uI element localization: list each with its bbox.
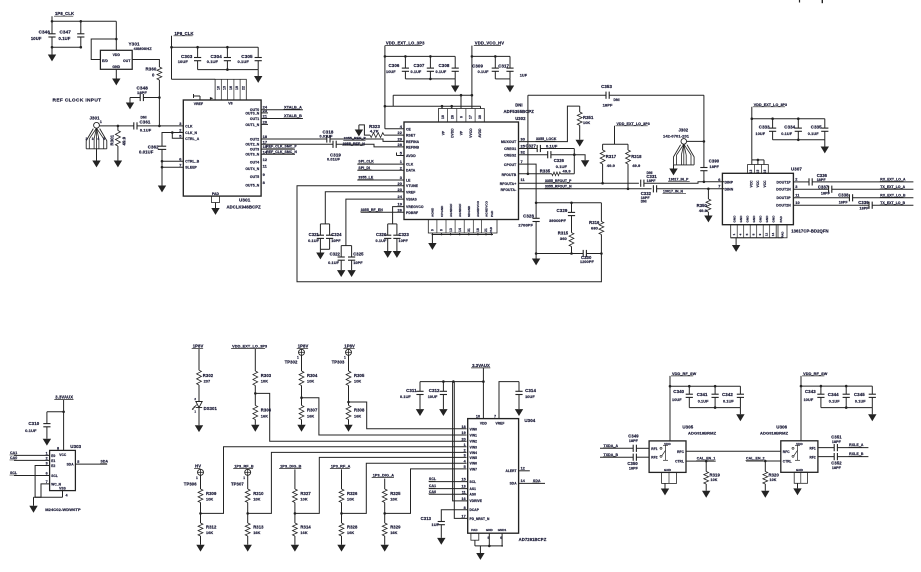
svg-text:VDD_EXT_LO_3P3: VDD_EXT_LO_3P3 — [232, 345, 267, 349]
pin U302 CREG2 (32) — [504, 150, 526, 158]
svg-text:CAL_EN_2: CAL_EN_2 — [746, 457, 765, 461]
svg-text:0.1UF: 0.1UF — [829, 400, 840, 404]
svg-text:U304: U304 — [524, 418, 535, 423]
svg-text:DOUT1N: DOUT1N — [776, 188, 791, 192]
svg-text:HV: HV — [195, 463, 201, 468]
ground U307 — [732, 238, 740, 252]
svg-text:RX_EXT_LO_A: RX_EXT_LO_A — [880, 178, 906, 182]
svg-text:MUXOUT: MUXOUT — [501, 140, 517, 144]
svg-text:RF2: RF2 — [809, 456, 815, 460]
capacitor C330 — [580, 250, 603, 264]
svg-text:R325: R325 — [390, 491, 401, 496]
pin U301 OUT5_N (8) — [245, 180, 265, 187]
svg-text:C313: C313 — [421, 516, 432, 521]
svg-text:SPI_DI: SPI_DI — [358, 166, 370, 170]
svg-text:2: 2 — [86, 137, 88, 141]
wire SPI_CLK to U302 CLK — [357, 160, 404, 164]
svg-text:VBIAS: VBIAS — [406, 198, 418, 202]
svg-text:18PF: 18PF — [821, 191, 831, 195]
svg-text:26: 26 — [397, 207, 402, 212]
node VDD_EXT_LO_3P3 label (U302 left) — [385, 41, 425, 46]
svg-text:OUT4: OUT4 — [250, 161, 259, 165]
svg-text:18PF: 18PF — [629, 439, 639, 443]
wire U302 VBIAS to C322/C325 — [346, 199, 404, 246]
svg-text:DOUT1P: DOUT1P — [776, 180, 791, 184]
svg-text:C353: C353 — [601, 84, 612, 89]
svg-text:14: 14 — [458, 228, 462, 232]
pin U301 OUT3_N (14) — [245, 149, 268, 156]
wire U302 VREGVCO to C320/C323 — [393, 207, 404, 224]
svg-text:VCC: VCC — [763, 180, 767, 188]
svg-text:18: 18 — [461, 425, 465, 429]
pin U301 SLEEP (7) — [179, 162, 197, 169]
svg-text:PAD: PAD — [781, 232, 785, 238]
wire U304 PD_NRST_N to 3.3VAUX — [454, 382, 467, 519]
capacitor C390 — [700, 95, 719, 182]
pin U302 VREGVCO (19) — [397, 202, 423, 209]
resistor R317 — [600, 144, 617, 183]
svg-text:ADG918BRMZ: ADG918BRMZ — [760, 430, 789, 435]
pin U302 RFOUTA+ (11) — [500, 177, 526, 186]
svg-text:VDD_RF_SW: VDD_RF_SW — [672, 372, 697, 376]
resistor R328 — [339, 513, 358, 544]
ground R313 — [244, 545, 252, 552]
svg-text:SPI_CLK: SPI_CLK — [358, 160, 374, 164]
svg-text:0.1UF: 0.1UF — [308, 239, 319, 243]
wire U303 WC_N to ground rail — [35, 484, 50, 497]
ground U301 PAD — [211, 203, 219, 215]
pin U302 CPOUT (7) — [504, 159, 523, 167]
svg-text:C326: C326 — [554, 158, 565, 163]
capacitor C320 — [376, 224, 397, 251]
svg-text:AS1: AS1 — [470, 487, 477, 491]
IC U306 ADG918BRMZ body — [760, 425, 818, 473]
svg-text:C320: C320 — [376, 232, 387, 237]
svg-text:6: 6 — [440, 229, 444, 231]
pin boxes U302 top supply pins — [439, 109, 485, 138]
ground R308 — [344, 425, 352, 432]
wire CA0 to U304 — [428, 490, 467, 494]
ground C321/C324 — [316, 249, 329, 259]
wire tap R304/R307 — [300, 396, 466, 435]
pin U302 VBIAS (24) — [397, 194, 417, 201]
wire U303 ground rail — [34, 496, 63, 498]
svg-text:OUT3_N: OUT3_N — [245, 153, 259, 157]
svg-text:C322: C322 — [330, 251, 341, 256]
svg-text:U302: U302 — [515, 116, 526, 121]
wire XTALB_A from U301 OUT0 — [261, 105, 303, 109]
capacitor C309 — [472, 56, 499, 79]
svg-text:10: 10 — [441, 115, 445, 119]
svg-text:16: 16 — [229, 86, 233, 90]
pin boxes U307 VCC pins — [748, 165, 769, 188]
svg-text:TP303: TP303 — [332, 359, 345, 364]
svg-text:10PF: 10PF — [331, 239, 341, 243]
IC U305 ADG918BRMZ body — [649, 425, 716, 473]
svg-text:OUT3: OUT3 — [250, 148, 259, 152]
pin U303 VSS (4) — [59, 487, 68, 498]
wire VTUNE loop (U302 pin20 to loop filter) — [297, 186, 601, 282]
capacitor C311 — [400, 382, 424, 410]
svg-text:16K: 16K — [347, 531, 354, 535]
svg-text:0.1UF: 0.1UF — [59, 36, 71, 41]
capacitor C325 — [348, 246, 364, 271]
ground R323 — [355, 125, 363, 136]
pin U301 OUT1 (21) — [250, 114, 268, 121]
svg-text:VIN5: VIN5 — [470, 456, 478, 460]
capacitor C351 — [818, 435, 869, 452]
svg-text:XTALB_A: XTALB_A — [284, 105, 302, 109]
svg-text:1P8V: 1P8V — [344, 344, 355, 349]
wire RFOUTB to C353 line — [527, 95, 529, 174]
pin U304 VIN5 (3) — [464, 454, 477, 460]
svg-text:16K: 16K — [253, 531, 260, 535]
svg-text:13: 13 — [223, 86, 227, 90]
svg-text:R318: R318 — [631, 154, 642, 159]
pin U304 DCAP (8) — [464, 506, 480, 512]
svg-text:10K: 10K — [300, 497, 307, 501]
svg-text:CA0: CA0 — [429, 490, 436, 494]
svg-text:49.9: 49.9 — [122, 136, 127, 145]
svg-text:PAD: PAD — [489, 226, 493, 233]
resistor R323 — [359, 124, 404, 138]
wire REF_CLK_SMC_N from U301 OUT3_N — [261, 150, 297, 154]
svg-text:10K: 10K — [711, 478, 718, 482]
wire R325 from supply — [384, 479, 386, 489]
pin U301 CTRL_A (5) — [179, 133, 199, 140]
pin U304 VREF (7) — [494, 415, 504, 426]
capacitor C304 — [207, 47, 231, 69]
pin VREF stub U301 — [194, 94, 214, 106]
wire U301 CTRL_B to ground net — [162, 160, 183, 162]
pin boxes U302 bottom ground pins — [428, 200, 497, 233]
resistor R305 — [346, 371, 365, 405]
wire 1P8_CLK rail top-left — [51, 20, 117, 23]
pin U304 SCL (15) — [461, 478, 476, 484]
pin U302 MUXOUT (30) — [501, 137, 525, 145]
ground C320 — [384, 251, 392, 258]
svg-text:10K: 10K — [347, 497, 354, 501]
IC U307 body — [722, 167, 828, 234]
capacitor C348 — [130, 86, 159, 101]
svg-text:3355_LOCK: 3355_LOCK — [536, 137, 557, 141]
wire R326 from supply — [341, 469, 343, 489]
pin U303 SDA (5) — [67, 460, 80, 466]
svg-text:C334: C334 — [784, 125, 795, 130]
svg-text:7: 7 — [494, 415, 496, 419]
ground R307 — [297, 425, 305, 432]
svg-text:C341: C341 — [697, 392, 708, 397]
svg-text:0.1UF: 0.1UF — [328, 261, 339, 265]
svg-text:3355_RFOUT_N: 3355_RFOUT_N — [545, 184, 572, 188]
ground C313 — [437, 538, 445, 545]
svg-text:VSS: VSS — [59, 487, 66, 491]
svg-text:14: 14 — [771, 233, 775, 237]
svg-text:13617_IN_P: 13617_IN_P — [669, 177, 689, 181]
IC U303 body — [45, 444, 81, 512]
test point TP306 — [184, 469, 204, 489]
capacitor C303 — [178, 47, 202, 69]
svg-text:0.1UF: 0.1UF — [238, 59, 250, 64]
svg-text:CLK: CLK — [406, 163, 414, 167]
svg-text:AGNDVCO: AGNDVCO — [484, 200, 488, 217]
pin U302 DATA (2) — [400, 165, 416, 172]
node HV label (R309) — [194, 463, 201, 468]
svg-text:10UF: 10UF — [428, 395, 438, 399]
svg-text:1: 1 — [196, 476, 198, 480]
svg-text:TP307: TP307 — [231, 482, 244, 487]
wire CAL_EN_1 from U305 CTRL — [686, 457, 716, 463]
svg-text:11: 11 — [795, 193, 800, 198]
wire 3355_LOCK from MUXOUT — [519, 106, 580, 142]
svg-text:7: 7 — [718, 184, 720, 189]
svg-text:3.3VAUX: 3.3VAUX — [472, 363, 490, 368]
svg-text:C317: C317 — [498, 63, 509, 68]
wire SDA from U304 — [519, 479, 545, 483]
svg-text:C327: C327 — [526, 144, 537, 149]
pin U304 SDA (14) — [510, 479, 526, 486]
wire SDA from U303 — [75, 460, 108, 464]
svg-text:C350: C350 — [627, 461, 638, 466]
svg-text:1P3_RF_B: 1P3_RF_B — [234, 464, 254, 468]
svg-text:U301: U301 — [239, 198, 251, 203]
svg-text:18PF: 18PF — [860, 206, 870, 210]
svg-text:39000PF: 39000PF — [549, 218, 566, 223]
svg-text:18PF: 18PF — [710, 165, 720, 169]
svg-text:21: 21 — [484, 228, 488, 232]
svg-text:10K: 10K — [206, 497, 213, 501]
svg-text:CA1: CA1 — [429, 484, 436, 488]
pin U304 VIN7 (5) — [464, 465, 477, 471]
wire 3355_LE to U302 LE — [357, 176, 404, 180]
resistor R312 — [198, 513, 217, 544]
wire CAL_EN_2 from U306 CTRL — [746, 457, 781, 463]
ground R312 — [196, 545, 204, 552]
svg-text:VREF: VREF — [194, 102, 203, 106]
svg-text:DATA: DATA — [406, 169, 416, 173]
svg-text:CTRL_A: CTRL_A — [185, 137, 199, 141]
svg-text:PAD: PAD — [212, 192, 220, 196]
resistor R301 — [110, 126, 127, 146]
svg-text:18PF: 18PF — [137, 90, 147, 95]
pin U302 RSET (22) — [397, 130, 416, 137]
svg-text:10UF: 10UF — [525, 395, 535, 399]
ground below C346 — [48, 47, 56, 61]
wire C309-C317 bottom / ground — [495, 79, 514, 93]
wire tap R305/R308 — [347, 401, 466, 429]
pin U304 VIN3 (1) — [464, 443, 477, 449]
svg-text:30: 30 — [521, 137, 526, 142]
IC U304 AD7291BCPZ body — [468, 418, 547, 542]
resistor R303 — [253, 371, 272, 405]
svg-text:C346: C346 — [39, 29, 51, 34]
resistor R308 — [346, 405, 365, 424]
svg-text:2: 2 — [464, 449, 466, 453]
svg-text:1P8V: 1P8V — [193, 344, 204, 349]
capacitor C307 — [411, 56, 435, 79]
svg-text:GND: GND — [486, 528, 494, 532]
svg-text:R302: R302 — [203, 373, 214, 378]
wire VDD_RF_SW rail (U305) — [669, 376, 741, 441]
svg-text:8: 8 — [464, 506, 466, 510]
svg-text:TP306: TP306 — [184, 482, 197, 487]
svg-text:OUT0_N: OUT0_N — [245, 111, 259, 115]
resistor R326 — [339, 489, 358, 513]
wire U302 VREF to C321/C324 — [325, 192, 404, 224]
pin U302 CLK (1) — [400, 159, 414, 166]
IC U301 ADCLK946BCPZ body — [183, 100, 261, 210]
pin box U305 GND — [662, 472, 677, 483]
ground caps (U305) — [736, 408, 744, 422]
svg-text:SDA: SDA — [67, 462, 75, 466]
capacitor C313 — [421, 510, 468, 538]
pin U304 VIN0 (18) — [461, 425, 477, 431]
svg-text:32: 32 — [521, 150, 526, 155]
svg-text:PAD: PAD — [490, 210, 494, 217]
svg-text:28: 28 — [450, 115, 454, 119]
svg-text:10K: 10K — [253, 497, 260, 501]
svg-text:CREG2: CREG2 — [504, 154, 516, 158]
resistor R316 — [589, 203, 604, 254]
wire tap R327/R314 — [294, 457, 467, 514]
resistor R335 — [519, 168, 575, 175]
svg-text:2: 2 — [194, 397, 196, 401]
wire R303 from supply — [254, 349, 256, 371]
pin U303 E2 (3) — [46, 462, 56, 468]
pin boxes U301 VDD pins 10/13/16/19/22 — [215, 79, 246, 105]
wire Y301 E/D tie to VDD — [91, 39, 116, 60]
svg-text:0.1UF: 0.1UF — [478, 70, 489, 74]
capacitor C319 — [261, 141, 404, 162]
svg-text:VP: VP — [460, 130, 464, 135]
svg-text:10UF: 10UF — [31, 36, 42, 41]
svg-text:0.1UF: 0.1UF — [723, 400, 734, 404]
wire R327 from supply — [294, 469, 296, 489]
svg-text:C324: C324 — [331, 232, 342, 237]
LED DS301 — [192, 397, 217, 425]
capacitor C314 — [515, 382, 536, 410]
svg-text:E0: E0 — [51, 454, 55, 458]
svg-text:ALERT: ALERT — [505, 469, 516, 473]
capacitor C338 — [793, 193, 913, 205]
svg-text:10: 10 — [476, 415, 480, 419]
capacitor C341 — [697, 386, 719, 407]
svg-text:R316: R316 — [589, 220, 600, 225]
resistor R350 — [697, 189, 711, 216]
svg-text:40M00HZ: 40M00HZ — [134, 46, 153, 51]
svg-text:DNI: DNI — [641, 200, 647, 204]
wire U301 CTRL_A tie to CLK_N — [171, 131, 183, 138]
capacitor C336 — [793, 173, 913, 186]
svg-text:DS301: DS301 — [204, 406, 218, 411]
wire U307 VCC rail — [752, 159, 764, 165]
node VDD_RF_SW label (U305) — [671, 372, 697, 376]
svg-text:19: 19 — [461, 431, 465, 435]
svg-text:3355_REF_P: 3355_REF_P — [344, 137, 367, 141]
resistor R360 — [146, 67, 162, 127]
svg-text:R351: R351 — [583, 115, 594, 120]
svg-text:LE: LE — [406, 179, 411, 183]
svg-text:CTRL: CTRL — [675, 460, 684, 464]
svg-text:1P3_DIG_B: 1P3_DIG_B — [280, 464, 302, 468]
node 1P3_DIG_A label (R325) — [372, 474, 395, 478]
svg-text:1P8V: 1P8V — [298, 344, 309, 349]
wire J301 to C361 — [99, 125, 133, 128]
wire VDD_VCO_HV vertical — [471, 46, 474, 109]
svg-text:OUT1: OUT1 — [250, 117, 259, 121]
pin U302 RFOUTB — [502, 173, 517, 177]
pin U302 PDBRF (26) — [397, 207, 418, 214]
wire CA0 to U303 E1 — [10, 456, 50, 460]
svg-text:16K: 16K — [307, 414, 314, 418]
svg-text:1: 1 — [243, 476, 245, 480]
svg-text:VDD_RF_SW: VDD_RF_SW — [803, 372, 828, 376]
svg-text:5: 5 — [745, 233, 749, 235]
svg-text:1: 1 — [464, 443, 466, 447]
node VDD_EXT_LO_3P3 label (R303) — [231, 345, 267, 349]
svg-text:C325: C325 — [353, 251, 364, 256]
svg-text:10K: 10K — [307, 380, 314, 384]
capacitor C343 — [804, 386, 825, 408]
resistor R320 — [763, 461, 780, 491]
svg-text:CPOUT: CPOUT — [504, 163, 517, 167]
svg-text:R313: R313 — [253, 525, 264, 530]
pin U302 REFINA (29) — [397, 137, 419, 144]
svg-text:REF CLOCK INPUT: REF CLOCK INPUT — [53, 98, 102, 104]
svg-text:GND: GND — [765, 215, 769, 223]
ground J302 shield — [669, 165, 677, 176]
pin U302 CE (4) — [400, 124, 412, 131]
svg-text:DNI: DNI — [515, 103, 523, 108]
svg-text:R304: R304 — [307, 373, 318, 378]
pin U301 OUT2_N (17) — [245, 139, 267, 146]
svg-text:U303: U303 — [70, 444, 81, 449]
svg-text:CPGND: CPGND — [440, 205, 444, 217]
wire tap R303/R306 — [254, 392, 467, 441]
text REF CLOCK INPUT — [53, 98, 102, 104]
svg-text:AD7291BCPZ: AD7291BCPZ — [519, 537, 547, 542]
pin U307 DOUT1N (3) — [776, 184, 798, 192]
svg-text:U305: U305 — [682, 425, 693, 430]
node 1P8V label (R304) — [297, 344, 309, 349]
pin box U306 GND — [794, 472, 807, 483]
svg-text:VDD_EXT_LO_3P3: VDD_EXT_LO_3P3 — [386, 41, 425, 46]
ground below C305 — [254, 70, 262, 83]
svg-text:RFOUTA-: RFOUTA- — [501, 188, 517, 192]
wire CA1 to U303 E0 — [10, 451, 50, 455]
capacitor C334 — [781, 119, 802, 140]
resistor R309 — [198, 489, 217, 513]
svg-text:E2: E2 — [51, 464, 55, 468]
svg-text:SLEEP: SLEEP — [185, 166, 197, 170]
capacitor C329 — [549, 203, 575, 233]
svg-text:13: 13 — [449, 228, 453, 232]
svg-text:18PF: 18PF — [832, 466, 842, 470]
svg-text:16K: 16K — [300, 531, 307, 535]
capacitor C306 — [386, 56, 409, 79]
svg-text:CA1: CA1 — [10, 451, 17, 455]
pin U302 REFINB (28) — [397, 142, 419, 149]
ground R306 — [251, 425, 259, 432]
resistor R351 — [577, 106, 594, 140]
pin U304 VIN6 (4) — [464, 459, 477, 465]
svg-text:C306: C306 — [389, 63, 400, 68]
wire SCL to U303 SCL — [10, 471, 50, 475]
svg-text:PDBRF: PDBRF — [406, 211, 418, 215]
svg-text:11: 11 — [521, 177, 526, 182]
svg-text:OUT1_N: OUT1_N — [245, 123, 259, 127]
svg-text:C312: C312 — [429, 388, 440, 393]
